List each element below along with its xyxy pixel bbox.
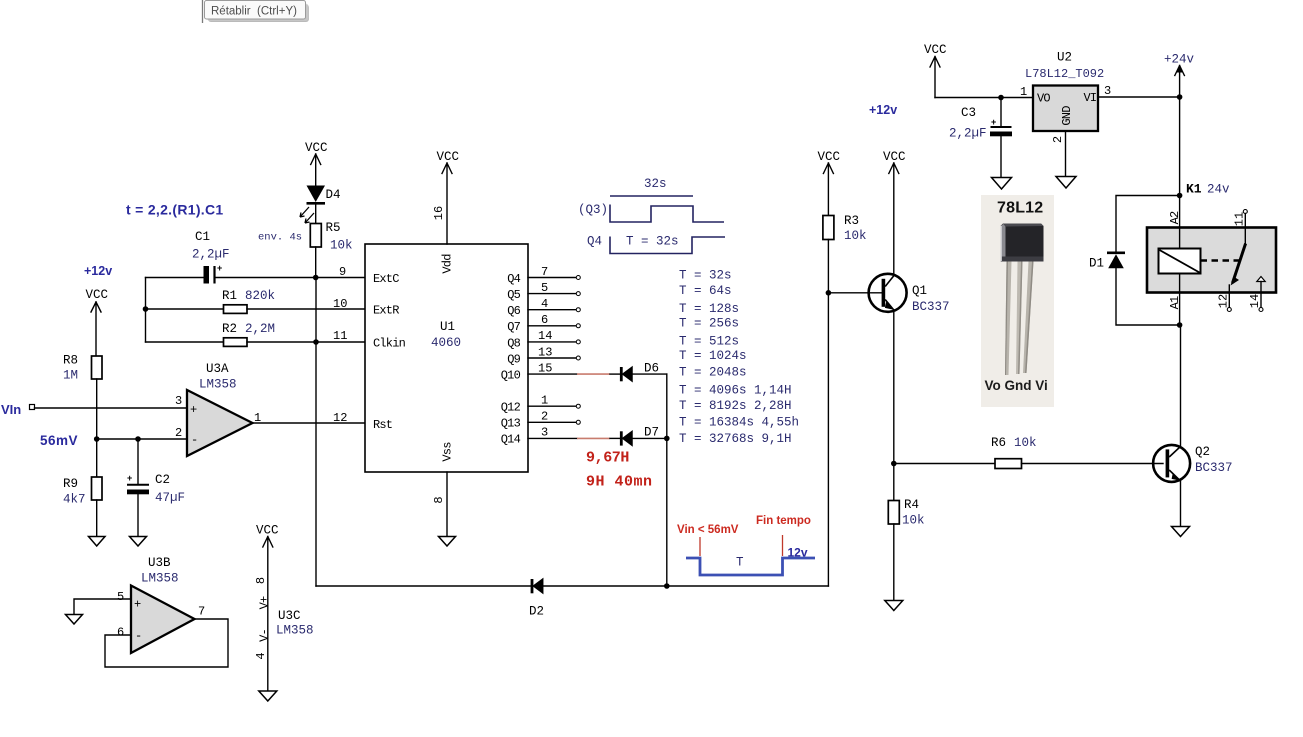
svg-text:12: 12 [1217, 294, 1231, 308]
svg-text:10: 10 [333, 297, 347, 311]
wire U2 GND pin to ground [1065, 131, 1067, 177]
wire D6/D7 vertical to bottom rail [666, 374, 668, 586]
svg-text:V-: V- [258, 629, 272, 642]
svg-text:T = 8192s 2,28H: T = 8192s 2,28H [679, 399, 792, 413]
svg-text:(Q3): (Q3) [578, 203, 608, 217]
pin 6 stub Q7 [528, 313, 580, 328]
svg-text:6: 6 [541, 313, 548, 327]
capacitor C2 [127, 439, 185, 537]
transistor Q1 BC337 [869, 274, 950, 314]
wire VIn to op-amp pin3 [35, 407, 188, 409]
annotation Fin tempo [756, 515, 811, 527]
svg-text:78L12: 78L12 [997, 200, 1043, 217]
svg-text:Rétablir (Ctrl+Y): Rétablir (Ctrl+Y) [211, 6, 297, 18]
ground (U1 Vss) [439, 537, 456, 547]
svg-text:C1: C1 [195, 230, 210, 244]
resistor R5 [310, 205, 352, 278]
ground (U3C) [259, 691, 277, 701]
svg-text:Vo Gnd Vi: Vo Gnd Vi [985, 378, 1048, 393]
wire Q14 red segment [577, 437, 620, 439]
ground (U2 GND) [1056, 177, 1076, 189]
power +24v [1164, 53, 1195, 197]
wire U3B feedback loop [105, 619, 228, 667]
svg-text:14: 14 [1248, 294, 1262, 308]
wire 56mV node to op-amp pin2 [97, 438, 187, 440]
annotation 12v pulse waveform [686, 546, 815, 576]
svg-text:VCC: VCC [924, 43, 947, 57]
pin 1 stub Q12 [528, 394, 580, 409]
svg-text:10k: 10k [330, 239, 353, 253]
svg-text:env. 4s: env. 4s [258, 232, 302, 244]
svg-text:R8: R8 [63, 354, 78, 368]
svg-text:T = 32s: T = 32s [626, 235, 679, 249]
timing diagram 32s period label [610, 177, 693, 196]
ground (R4) [885, 601, 903, 611]
IC U1 4060 body [365, 244, 528, 472]
svg-text:+12v: +12v [869, 103, 897, 117]
svg-text:Q10: Q10 [501, 369, 521, 383]
junction R1 left [143, 306, 149, 312]
svg-text:U3B: U3B [148, 556, 171, 570]
pin 16 number [432, 206, 446, 220]
svg-text:32s: 32s [644, 177, 667, 191]
svg-text:7: 7 [198, 605, 205, 619]
svg-text:3: 3 [541, 426, 548, 440]
pin 3 wire Q14 [528, 426, 577, 440]
pin V+ label [258, 596, 272, 609]
svg-text:T = 2048s: T = 2048s [679, 365, 747, 379]
svg-text:T = 32768s 9,1H: T = 32768s 9,1H [679, 432, 792, 446]
svg-text:Q6: Q6 [507, 304, 520, 318]
wire ExtC line (pin 9) [146, 277, 366, 279]
svg-text:R3: R3 [844, 214, 859, 228]
wire base to Q1 [828, 292, 882, 294]
svg-text:D4: D4 [326, 188, 341, 202]
wire D1 branch bottom [1116, 268, 1180, 325]
svg-text:T = 4096s 1,14H: T = 4096s 1,14H [679, 384, 792, 398]
pin 15 wire Q10 [528, 362, 577, 376]
svg-text:2: 2 [1051, 136, 1065, 143]
svg-text:3: 3 [175, 394, 182, 408]
svg-text:VIn: VIn [1, 402, 21, 417]
svg-text:Vss: Vss [441, 442, 455, 462]
wire left vertical C1/R1/R2 [145, 278, 147, 343]
svg-text:4: 4 [254, 652, 268, 659]
svg-text:2: 2 [175, 426, 182, 440]
svg-text:U1: U1 [440, 320, 455, 334]
junction 56mV/R8 [94, 436, 100, 442]
capacitor C3 [949, 98, 1012, 178]
svg-text:9,67H: 9,67H [586, 450, 629, 467]
svg-text:+: + [217, 263, 222, 273]
svg-text:D2: D2 [529, 605, 544, 619]
junction +24v / VI [1177, 94, 1183, 100]
pin 4 stub Q6 [528, 297, 580, 312]
resistor R3 [823, 214, 867, 293]
wire Q2 emitter to ground [1180, 481, 1182, 527]
relay coil [1159, 249, 1201, 274]
svg-text:+: + [190, 403, 197, 417]
svg-text:+: + [127, 473, 132, 483]
svg-text:VO: VO [1037, 92, 1050, 106]
svg-text:T = 512s: T = 512s [679, 335, 739, 349]
svg-text:K1: K1 [1186, 182, 1202, 197]
svg-text:GND: GND [1060, 106, 1074, 126]
wire coil feed A2 [1179, 196, 1181, 250]
junction C2 tap [135, 436, 141, 442]
power VCC (above U1 Vdd) [437, 150, 460, 244]
wire R3 node down to bottom rail [827, 293, 829, 586]
svg-text:Vdd: Vdd [441, 254, 455, 274]
pin 8 label (U3C V+) [254, 577, 268, 584]
svg-text:2,2µF: 2,2µF [192, 248, 230, 262]
svg-text:+12v: +12v [84, 264, 112, 278]
svg-text:2,2M: 2,2M [245, 322, 275, 336]
tooltip caret line [202, 0, 204, 23]
svg-text:R6: R6 [991, 436, 1006, 450]
power VCC (U2 input) [924, 43, 947, 98]
svg-text:t = 2,2.(R1).C1: t = 2,2.(R1).C1 [126, 202, 223, 218]
junction D4/R5 on ExtC wire [313, 275, 319, 281]
svg-text:Rst: Rst [373, 418, 392, 432]
relay K1 body [1147, 228, 1276, 293]
transistor Q2 BC337 [1153, 445, 1232, 482]
power VCC (above D4) [305, 141, 328, 185]
node VIn input pad [1, 402, 35, 417]
relay switch blade [1231, 244, 1246, 286]
svg-text:9H 40mn: 9H 40mn [586, 474, 653, 491]
op-amp U3C labels [276, 609, 314, 638]
annotation formula t = 2,2.(R1).C1 [126, 202, 223, 218]
svg-text:8: 8 [254, 577, 268, 584]
regulator U2 L78L12_TO92 [1020, 51, 1111, 144]
svg-text:T = 16384s 4,55h: T = 16384s 4,55h [679, 416, 799, 430]
wire op-amp output to Rst [253, 422, 366, 424]
capacitor C1 [192, 230, 230, 284]
svg-text:T = 64s: T = 64s [679, 284, 732, 298]
svg-text:8: 8 [432, 496, 446, 503]
svg-text:Q14: Q14 [501, 433, 521, 447]
svg-text:+: + [991, 117, 996, 127]
wire bottom rail [316, 585, 828, 587]
resistor R1 [146, 289, 366, 313]
svg-text:15: 15 [538, 362, 552, 376]
power VCC (above R3) [818, 150, 841, 216]
pin 11 number [333, 329, 347, 343]
pin 9 number [339, 265, 346, 279]
svg-text:R5: R5 [326, 221, 341, 235]
svg-text:12v: 12v [788, 546, 808, 560]
junction D7 [664, 436, 670, 442]
wire Q1 emitter down [893, 310, 895, 464]
svg-text:LM358: LM358 [141, 572, 179, 586]
svg-text:ExtR: ExtR [373, 304, 399, 318]
svg-text:U2: U2 [1057, 51, 1072, 65]
svg-text:Fin tempo: Fin tempo [756, 515, 811, 527]
svg-text:C3: C3 [961, 106, 976, 120]
op-amp U3A [175, 362, 261, 456]
svg-text:Q8: Q8 [507, 337, 520, 351]
annotation Vin < 56mV [677, 524, 739, 536]
svg-text:VCC: VCC [883, 150, 906, 164]
svg-text:56mV: 56mV [40, 433, 78, 448]
svg-text:1M: 1M [63, 369, 78, 383]
node K1 24v label [1186, 182, 1230, 197]
pin 13 stub Q9 [528, 346, 580, 361]
svg-text:Q4: Q4 [587, 235, 602, 249]
wire Q2 collector up to relay [1180, 325, 1182, 446]
svg-text:VCC: VCC [437, 150, 460, 164]
diode D1 [1089, 253, 1125, 271]
resistor R2 [146, 322, 366, 346]
svg-text:R4: R4 [904, 498, 919, 512]
svg-text:Q4: Q4 [507, 272, 520, 286]
svg-text:2: 2 [541, 410, 548, 424]
wire VCC to U2 VO [935, 97, 1033, 99]
junction bottom rail [664, 583, 670, 589]
svg-text:R2: R2 [222, 322, 237, 336]
svg-text:BC337: BC337 [912, 300, 950, 314]
pin A2 label [1168, 211, 1182, 224]
svg-text:+: + [134, 598, 141, 612]
junction C3 tap [998, 95, 1004, 101]
wire oscillator vertical down to bottom rail [315, 278, 317, 587]
annotation 9H 40mn [586, 474, 653, 491]
annotation T values list [679, 269, 799, 447]
svg-text:13: 13 [538, 346, 552, 360]
op-amp U3B [117, 556, 205, 653]
photo 78L12 TO-92 package [981, 195, 1054, 407]
ground (C2) [130, 537, 147, 547]
svg-text:R9: R9 [63, 477, 78, 491]
svg-text:2,2µF: 2,2µF [949, 127, 987, 141]
tooltip Retablir (Ctrl+Y) [205, 1, 310, 23]
wire U2 VI to +24v rail [1098, 96, 1180, 98]
pin 2 stub Q13 [528, 410, 580, 425]
junction Q1 base node [826, 290, 832, 296]
node Q4 waveform T = 32s [587, 235, 725, 254]
svg-text:Q13: Q13 [501, 417, 521, 431]
svg-text:9: 9 [339, 265, 346, 279]
power VCC (above Q1) [883, 150, 906, 276]
svg-text:D1: D1 [1089, 257, 1104, 271]
diode D7 [621, 426, 667, 446]
wire Vss to ground [446, 472, 448, 537]
svg-text:5: 5 [541, 281, 548, 295]
junction relay A1 node [1177, 322, 1183, 328]
relay dashed actuator link [1201, 259, 1241, 262]
power unit U3C VCC [256, 524, 279, 692]
relay contact pin 12 [1217, 285, 1232, 312]
svg-text:820k: 820k [245, 289, 275, 303]
svg-text:LM358: LM358 [276, 624, 314, 638]
ground (U3B pin5) [66, 615, 83, 625]
pin 12 number [333, 411, 347, 425]
svg-text:14: 14 [538, 329, 552, 343]
pin V- label [258, 629, 272, 642]
svg-text:10k: 10k [844, 229, 867, 243]
ground (R9) [89, 537, 106, 547]
wire Q10 red segment [577, 373, 620, 375]
relay contact pin 14 [1248, 277, 1265, 312]
svg-text:U3A: U3A [206, 362, 229, 376]
diode D2 [529, 579, 544, 619]
svg-text:47µF: 47µF [155, 491, 185, 505]
pin 14 stub Q8 [528, 329, 580, 344]
resistor R9 [63, 439, 102, 537]
pin 10 number [333, 297, 347, 311]
svg-text:-: - [191, 433, 198, 447]
svg-text:T = 128s: T = 128s [679, 302, 739, 316]
annotation env. 4s [258, 232, 302, 244]
svg-text:Q7: Q7 [507, 320, 520, 334]
svg-text:Q9: Q9 [507, 353, 520, 367]
LED D4 [300, 186, 341, 224]
svg-text:Clkin: Clkin [373, 337, 406, 351]
annotation +12v [84, 264, 112, 278]
svg-text:11: 11 [1233, 212, 1247, 226]
pin 5 stub Q5 [528, 281, 580, 296]
svg-text:VCC: VCC [818, 150, 841, 164]
svg-text:10k: 10k [1014, 436, 1037, 450]
svg-text:+24v: +24v [1164, 53, 1195, 67]
annotation 9,67H [586, 450, 629, 467]
svg-text:4060: 4060 [431, 336, 461, 350]
pin A1 label [1168, 296, 1182, 309]
node (Q3) waveform [578, 203, 724, 222]
junction emitter/R4/R6 [891, 461, 897, 467]
svg-text:1: 1 [541, 394, 548, 408]
svg-text:T = 256s: T = 256s [679, 316, 739, 330]
svg-text:Vin < 56mV: Vin < 56mV [677, 524, 739, 536]
svg-text:1: 1 [1020, 85, 1027, 99]
svg-text:U3C: U3C [278, 609, 301, 623]
svg-text:4: 4 [541, 297, 548, 311]
svg-text:-: - [135, 629, 142, 643]
svg-text:T: T [736, 556, 744, 570]
svg-text:4k7: 4k7 [63, 493, 86, 507]
svg-text:6: 6 [117, 626, 124, 640]
resistor R8 [63, 354, 102, 440]
svg-text:11: 11 [333, 329, 347, 343]
ground (Q2) [1172, 527, 1190, 537]
svg-text:VI: VI [1084, 91, 1097, 105]
junction D1 top tap [1177, 193, 1183, 199]
pin 4 label (U3C V-) [254, 652, 268, 659]
diode D6 [621, 362, 667, 382]
svg-text:VCC: VCC [305, 141, 328, 155]
wire U3B pin5 to ground [74, 599, 131, 615]
svg-text:7: 7 [541, 265, 548, 279]
tick mark start tempo [699, 537, 701, 556]
resistor R6 [894, 436, 1163, 469]
svg-text:C2: C2 [155, 473, 170, 487]
svg-text:VCC: VCC [86, 288, 109, 302]
svg-text:D7: D7 [644, 426, 659, 440]
svg-text:T = 32s: T = 32s [679, 269, 732, 283]
annotation 56mV [40, 433, 78, 448]
resistor R4 [888, 464, 924, 601]
svg-text:5: 5 [117, 590, 124, 604]
svg-text:ExtC: ExtC [373, 272, 399, 286]
svg-text:10k: 10k [902, 514, 925, 528]
pin 8 number [432, 496, 446, 503]
pin 7 stub Q4 [528, 265, 580, 280]
relay contact pin 11 [1233, 210, 1248, 245]
svg-text:16: 16 [432, 206, 446, 220]
svg-text:Q12: Q12 [501, 401, 521, 415]
svg-text:Q5: Q5 [507, 288, 520, 302]
wire coil to A1 [1179, 274, 1181, 326]
junction on Clkin wire [313, 339, 319, 345]
svg-text:T = 1024s: T = 1024s [679, 349, 747, 363]
svg-text:V+: V+ [258, 596, 272, 609]
tick mark end tempo [782, 535, 784, 556]
svg-text:L78L12_T092: L78L12_T092 [1025, 67, 1104, 81]
annotation +12v (near U2) [869, 103, 897, 117]
ground (C3) [992, 178, 1012, 190]
svg-text:VCC: VCC [256, 524, 279, 538]
svg-text:BC337: BC337 [1195, 461, 1233, 475]
wire D1 branch top [1116, 196, 1180, 252]
svg-text:Q2: Q2 [1195, 445, 1210, 459]
svg-text:Q1: Q1 [912, 284, 927, 298]
svg-text:24v: 24v [1207, 183, 1230, 197]
svg-text:3: 3 [1104, 84, 1111, 98]
svg-text:LM358: LM358 [199, 378, 237, 392]
svg-text:12: 12 [333, 411, 347, 425]
svg-text:R1: R1 [222, 289, 237, 303]
power VCC (above R8) [86, 288, 109, 356]
